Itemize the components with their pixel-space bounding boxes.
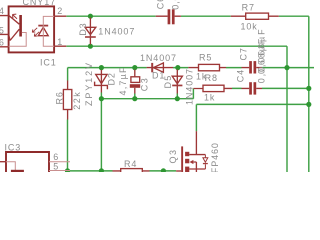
svg-text:0,068µF: 0,068µF	[170, 0, 180, 10]
svg-text:0,068µF: 0,068µF	[257, 37, 267, 84]
svg-text:6: 6	[53, 152, 59, 162]
svg-text:IC3: IC3	[5, 143, 22, 153]
svg-text:D3: D3	[78, 22, 88, 35]
svg-text:D2: D2	[107, 72, 117, 85]
svg-text:R6: R6	[55, 91, 65, 104]
svg-text:1N4007: 1N4007	[140, 53, 177, 63]
svg-text:IRFP460: IRFP460	[210, 142, 220, 172]
svg-text:R5: R5	[199, 52, 212, 62]
svg-text:2: 2	[57, 6, 63, 16]
svg-text:22k: 22k	[72, 91, 82, 110]
svg-text:CNY17: CNY17	[23, 0, 57, 7]
svg-text:IC1: IC1	[40, 57, 57, 67]
svg-text:R7: R7	[242, 3, 255, 13]
svg-text:ZPY12V: ZPY12V	[84, 61, 94, 106]
svg-text:4,7µF: 4,7µF	[118, 66, 128, 95]
svg-text:5: 5	[53, 162, 59, 172]
svg-text:5: 5	[0, 26, 5, 36]
svg-text:1: 1	[57, 37, 63, 47]
svg-text:C6: C6	[156, 0, 166, 9]
svg-text:4: 4	[0, 6, 5, 16]
svg-text:Q3: Q3	[168, 148, 178, 163]
svg-text:1N4007: 1N4007	[98, 27, 135, 37]
svg-text:C4: C4	[236, 69, 246, 82]
svg-text:6: 6	[0, 38, 5, 48]
svg-text:1k: 1k	[204, 92, 215, 102]
svg-text:10k: 10k	[241, 21, 258, 31]
svg-text:R4: R4	[124, 159, 137, 169]
svg-text:D5: D5	[163, 75, 173, 89]
svg-text:R8: R8	[205, 73, 218, 83]
svg-text:C3: C3	[140, 77, 150, 92]
svg-text:C7: C7	[238, 47, 248, 60]
svg-text:1N4007: 1N4007	[184, 68, 194, 105]
